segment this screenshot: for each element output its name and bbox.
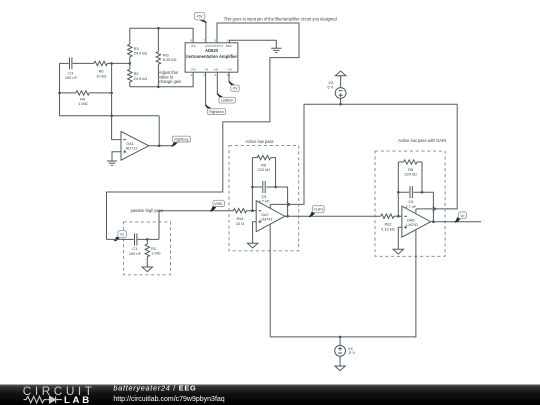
ground OA7 (247, 243, 257, 248)
wire R5 left lead (252, 157, 257, 159)
box Active low pass with GAIN (375, 151, 445, 256)
wire OA7 V+ pin to +5V rail row (269, 204, 271, 208)
resistor Rs2 (381, 214, 394, 218)
op-amp OA7 (256, 201, 285, 232)
flag LeftArm (217, 94, 222, 98)
flag -5V (229, 81, 234, 85)
svg-text:http://circuitlab.com/c79w9pby: http://circuitlab.com/c79w9pbyn3faq (113, 396, 224, 403)
resistor RG (156, 52, 160, 65)
capacitor C3 (70, 57, 72, 69)
wire V4 top lead (339, 337, 341, 346)
wire R2 bottom lead (129, 82, 131, 87)
svg-text:LM741: LM741 (261, 216, 273, 221)
wire R3-R2 (129, 57, 131, 69)
wire +5V rail drop to OA7 V+ (270, 104, 304, 204)
resistor R1 (145, 244, 149, 257)
svg-text:+IN: +IN (213, 68, 218, 72)
wire feedback to OA1 output (158, 116, 160, 146)
wire C1 input row (107, 238, 160, 240)
wire Rs2 to OA6 minus (394, 215, 402, 217)
wire REF pin 5 to ground (230, 40, 277, 48)
svg-text:8.25 kΩ: 8.25 kΩ (163, 57, 177, 62)
resistor R5 (257, 155, 270, 159)
svg-text:RightLeg: RightLeg (174, 138, 188, 142)
ground V3 (up triangle) (335, 71, 346, 76)
capacitor C1 (135, 233, 137, 245)
svg-text:5 V: 5 V (327, 84, 333, 89)
flag +5V (201, 19, 207, 22)
node R2R3 midpoint (129, 62, 132, 65)
op-amp OA6 (402, 206, 431, 237)
junction OA7 output (286, 215, 289, 218)
flag VHEL (210, 207, 216, 212)
junction R5-C5 right (274, 186, 277, 189)
resistor R4 (76, 91, 89, 95)
junction C1-R1 (146, 238, 149, 241)
junction C6 left (397, 191, 400, 194)
wire OA6 output row (431, 221, 481, 223)
junction OA7 minus node (251, 209, 254, 212)
wire R6 to R2R3 column (107, 62, 129, 64)
svg-text:REF: REF (226, 44, 232, 48)
svg-text:This goes to input pin of the: This goes to input pin of the filter/amp… (224, 17, 338, 22)
wire R5 right lead down to C5 row (271, 158, 276, 187)
junction OA1 output (158, 145, 161, 148)
wire OA6 V- pin down to -5V rail (415, 230, 417, 337)
wire bottom feedback row (60, 115, 160, 117)
resistor R2 (128, 69, 132, 82)
svg-text:RG: RG (191, 68, 196, 72)
flag Vo (455, 218, 461, 223)
wire OA7 minus node vertical to R5 row (251, 158, 253, 211)
capacitor C5 (263, 181, 265, 193)
box Active low pass (229, 146, 299, 251)
junction bottom row (110, 115, 113, 118)
capacitor C6 (410, 186, 412, 198)
wire -IN pin 2 down (205, 72, 207, 105)
svg-text:batteryeater24 / EEG: batteryeater24 / EEG (113, 384, 196, 393)
wire OA6 V+ pin to +5V rail row (415, 209, 417, 213)
voltage source V3 5V (335, 88, 346, 99)
wire +VS pin 7 up (205, 23, 207, 43)
wire V3 top lead (340, 76, 342, 88)
wire C6 row (398, 192, 433, 221)
logo diode (47, 396, 62, 403)
junction R4 right (110, 92, 113, 95)
wire V4 bottom lead (339, 356, 341, 366)
junction OA6 minus node (397, 215, 400, 218)
svg-text:1: 1 (190, 73, 192, 77)
wire gain-network top rail to pin8 (130, 28, 193, 43)
svg-text:24.9 kΩ: 24.9 kΩ (134, 76, 148, 81)
svg-text:8: 8 (190, 39, 192, 43)
junction V3 on +5V rail (339, 103, 342, 106)
wire V3 bottom lead (340, 98, 342, 104)
svg-text:-5V: -5V (232, 87, 238, 91)
wire Rs3 to OA7 minus (247, 210, 257, 212)
svg-text:Active low pass: Active low pass (245, 139, 273, 144)
svg-text:Instrumentation Amplifier: Instrumentation Amplifier (186, 54, 237, 59)
wire C3-R6 top row (60, 62, 95, 64)
wire OA1 output (149, 145, 173, 147)
resistor R6 (94, 61, 107, 65)
svg-text:OUTPUT: OUTPUT (210, 44, 223, 48)
svg-text:AD620: AD620 (205, 48, 219, 53)
wire minus node vertical (112, 63, 121, 139)
voltage source V4 -5V (335, 345, 346, 356)
wire +5V rail drop to OA6 V+ (416, 104, 457, 209)
svg-text:7: 7 (203, 39, 205, 43)
wire OA6 plus input to ground (398, 227, 402, 249)
flag RightLeg (172, 142, 178, 147)
svg-text:Vs: Vs (120, 233, 124, 237)
wire R1 bottom lead (146, 257, 148, 267)
svg-text:LeftArm: LeftArm (221, 99, 233, 103)
svg-text:VHEL: VHEL (214, 202, 223, 206)
wire OA7 output row to Rs2 (285, 215, 381, 217)
wire +IN pin 3 down (216, 72, 218, 94)
resistor R8 (404, 160, 417, 164)
box passive high pass (124, 222, 171, 275)
svg-text:LAB: LAB (64, 395, 92, 405)
svg-text:VLHG: VLHG (314, 208, 324, 212)
wire R3 top lead (129, 28, 131, 44)
wire OA1 plus input to ground (112, 152, 121, 161)
wire OA7 plus input to ground (253, 222, 257, 244)
wire R1 top lead (146, 239, 148, 244)
wire C5 row (252, 187, 287, 216)
wire OA7 V- pin down to -5V rail (269, 224, 271, 337)
wire R4 row (60, 92, 112, 94)
svg-text:2: 2 (203, 73, 205, 77)
svg-text:2.13 kΩ: 2.13 kΩ (381, 226, 395, 231)
svg-text:passive high pass: passive high pass (131, 208, 164, 213)
svg-text:220 kΩ: 220 kΩ (404, 171, 417, 176)
wire OA6 minus node vertical to R8 row (397, 162, 399, 216)
junction V4 on -5V rail (339, 336, 342, 339)
op-amp OA1 (121, 131, 149, 160)
junction C5 left (251, 186, 254, 189)
svg-text:LM741: LM741 (406, 222, 418, 227)
wire RG bottom lead (157, 64, 159, 86)
junction R8-C6 (421, 191, 424, 194)
svg-text:Vo: Vo (460, 214, 464, 218)
svg-text:6: 6 (214, 39, 216, 43)
wire left vertical (59, 63, 61, 115)
wire RG top lead (157, 28, 159, 51)
logo resistor squiggle (24, 396, 47, 403)
junction RG top (157, 27, 160, 30)
svg-text:RG: RG (191, 44, 196, 48)
ground V4 (335, 366, 345, 371)
wire -5V rail (270, 336, 416, 338)
ground REF (271, 48, 281, 52)
op-amp U1 AD620 instrumentation amplifier body (185, 43, 238, 72)
svg-text:Active low pass with GAIN: Active low pass with GAIN (398, 138, 446, 143)
svg-text:-IN: -IN (204, 68, 208, 72)
wire AD620 output to high-pass input (long route) (107, 23, 300, 239)
svg-text:-5 V: -5 V (348, 350, 356, 355)
wire gain-network bottom rail to pin1 (130, 72, 193, 87)
flag VLHG (309, 212, 315, 217)
junction R6 right (110, 62, 113, 65)
svg-text:-VS: -VS (227, 68, 232, 72)
junction R4 left (58, 92, 61, 95)
resistor Rs3 (233, 209, 246, 213)
svg-text:100 nF: 100 nF (65, 75, 78, 80)
svg-text:1 MΩ: 1 MΩ (78, 101, 87, 106)
wire R8 right lead down to C6 row (417, 162, 422, 192)
arrow pointer at OA7 supply wire (287, 202, 290, 206)
svg-text:100 nF: 100 nF (129, 251, 142, 256)
flag RightArm (206, 105, 211, 109)
svg-text:1 MΩ: 1 MΩ (151, 251, 160, 256)
svg-text:4.7 nF: 4.7 nF (405, 204, 417, 209)
svg-text:3: 3 (214, 73, 216, 77)
wire R8 left lead (398, 161, 403, 163)
svg-text:10 Ω: 10 Ω (236, 221, 244, 226)
svg-text:10 kΩ: 10 kΩ (96, 73, 106, 78)
wire -VS pin 4 down (228, 72, 230, 82)
svg-text:change gain: change gain (159, 79, 182, 84)
flag Vs (115, 237, 120, 241)
svg-text:5: 5 (227, 39, 229, 43)
resistor R3 (128, 44, 132, 57)
svg-text:220 kΩ: 220 kΩ (257, 167, 270, 172)
arrow pointer at OA6 supply wire (433, 207, 436, 211)
wire high-pass output up to filter row (159, 211, 233, 240)
svg-text:+5V: +5V (196, 15, 203, 19)
wire +5V rail (304, 103, 457, 105)
ground R1 (142, 267, 152, 272)
svg-text:AD712: AD712 (126, 145, 138, 150)
junction OA6 output (432, 220, 435, 223)
ground OA1 (107, 161, 117, 165)
ground OA6 (393, 249, 403, 254)
junction RG bottom (157, 86, 160, 89)
svg-text:RightArm: RightArm (209, 110, 224, 114)
svg-text:24.9 kΩ: 24.9 kΩ (134, 51, 148, 56)
